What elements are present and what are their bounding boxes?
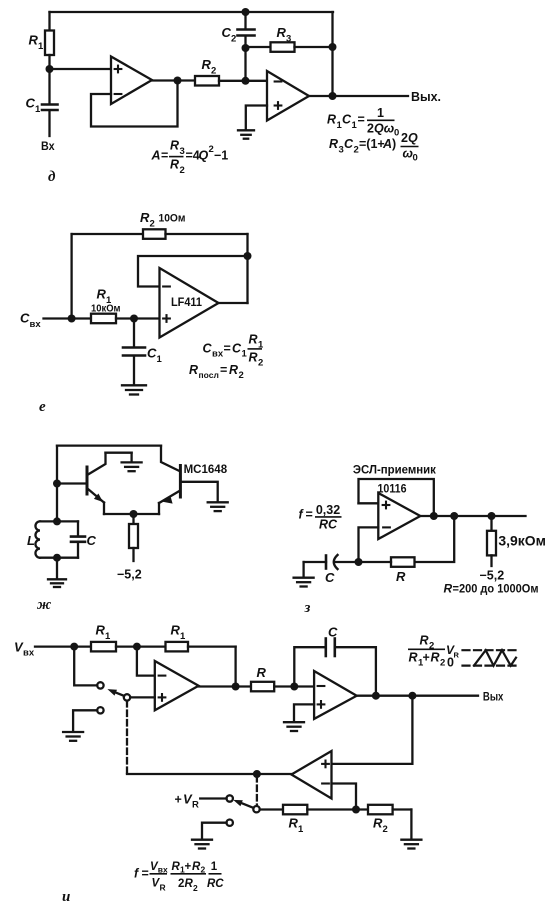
ground U2 + input xyxy=(238,130,254,138)
svg-text:−5,2: −5,2 xyxy=(480,569,505,583)
opamp U6 minus xyxy=(317,685,326,687)
svg-text:R: R xyxy=(202,57,212,72)
wire inverting input U4 to RC node xyxy=(359,527,379,562)
node U5 output junction xyxy=(232,683,240,691)
svg-text:=: = xyxy=(220,363,227,377)
dashed control line upper switch xyxy=(126,701,128,774)
svg-text:R: R xyxy=(289,816,299,831)
waveform triangle wave xyxy=(474,650,516,665)
ground switch lower xyxy=(192,840,212,849)
resistor emitter current source xyxy=(129,514,138,561)
wire comparator + input branch xyxy=(332,696,413,764)
svg-text:A: A xyxy=(151,149,161,163)
transistor Q2 collector xyxy=(161,446,179,471)
wire top bus circuit zh xyxy=(57,444,161,446)
wire tank bottom bar xyxy=(40,557,78,559)
wire U5 inverting input branch xyxy=(137,647,155,676)
resistor R2 10Om xyxy=(72,229,248,239)
svg-text:Вых: Вых xyxy=(483,690,504,704)
svg-text:2: 2 xyxy=(258,358,263,369)
node output 3.9k branch xyxy=(488,512,496,520)
svg-text:−5,2: −5,2 xyxy=(117,568,142,582)
svg-text:2: 2 xyxy=(401,131,408,145)
wire throw to ground xyxy=(73,710,97,731)
svg-text:R: R xyxy=(171,623,181,638)
svg-text:=: = xyxy=(161,149,168,163)
node between R1 resistors xyxy=(133,643,141,651)
svg-text:R: R xyxy=(409,651,418,665)
resistor R1 divider xyxy=(283,805,368,815)
svg-text:вх: вх xyxy=(212,349,224,360)
resistor R timing xyxy=(359,557,415,567)
svg-text:2: 2 xyxy=(354,145,359,156)
svg-text:R: R xyxy=(249,333,258,347)
capacitor C1 shunt xyxy=(123,319,145,385)
svg-text:3: 3 xyxy=(286,34,291,45)
resistor R3 xyxy=(246,42,333,52)
wire pole to R1 divider xyxy=(260,808,283,810)
svg-text:C: C xyxy=(328,625,338,640)
svg-text:1: 1 xyxy=(105,631,111,642)
wire R branch vertical xyxy=(415,516,455,562)
capacitor C2 xyxy=(238,12,255,48)
opamp U2 minus xyxy=(274,80,283,82)
svg-text:2: 2 xyxy=(231,34,236,45)
wire node X up to C2 xyxy=(244,48,246,81)
svg-text:3,9кОм: 3,9кОм xyxy=(498,534,546,549)
wire U2 output to Vyh xyxy=(309,95,408,97)
wire common emitter line xyxy=(104,513,159,515)
svg-text:RC: RC xyxy=(207,878,224,890)
ground below tank xyxy=(48,558,66,587)
svg-text:R: R xyxy=(170,158,179,172)
svg-text:R: R xyxy=(329,137,338,151)
wire U3 output xyxy=(219,302,248,304)
wire tank top bar xyxy=(40,520,78,522)
wire down to U5 output xyxy=(234,647,236,687)
svg-text:C: C xyxy=(232,342,242,356)
svg-text:R: R xyxy=(431,651,440,665)
svg-text:2: 2 xyxy=(383,824,388,835)
waveform dashed level 0 xyxy=(463,664,520,666)
svg-text:Вых.: Вых. xyxy=(411,90,441,104)
wire node to op-amp U1 + input xyxy=(50,68,112,70)
inductor L xyxy=(35,521,40,557)
svg-text:2: 2 xyxy=(209,144,214,155)
switch throw circle to ground xyxy=(97,707,103,713)
svg-text:10Ом: 10Ом xyxy=(159,213,186,225)
svg-text:R: R xyxy=(96,623,106,638)
svg-text:10116: 10116 xyxy=(378,484,407,496)
svg-text:1: 1 xyxy=(180,631,186,642)
svg-text:0: 0 xyxy=(447,656,454,670)
switch throw circle to ground lower xyxy=(227,820,233,826)
svg-text:R: R xyxy=(29,33,39,48)
switch throw circle to Vvx xyxy=(97,682,103,688)
opamp U6 plus xyxy=(317,700,326,709)
svg-text:посл: посл xyxy=(199,370,219,380)
transistor Q1 base bar xyxy=(86,467,89,494)
wire R2 right vertical down xyxy=(246,234,248,256)
capacitor C timing xyxy=(304,555,359,569)
resistor R2 xyxy=(195,76,246,86)
node feedback box right junction xyxy=(430,512,438,520)
op-amp U4 10116 xyxy=(378,493,420,539)
ground left circuit z xyxy=(294,562,314,587)
wire U6 output Vyh line xyxy=(357,695,478,697)
svg-text:2: 2 xyxy=(239,370,244,381)
dashed control line lower switch xyxy=(256,776,258,806)
svg-text:1: 1 xyxy=(377,106,384,120)
opamp U5 plus xyxy=(158,693,167,702)
node R1/C1 junction xyxy=(130,315,138,323)
transistor Q2 base bar xyxy=(179,466,182,498)
svg-text:R: R xyxy=(170,139,179,153)
svg-text:): ) xyxy=(392,137,396,151)
node summing junction U6 xyxy=(290,683,298,691)
svg-text:вх: вх xyxy=(23,648,35,659)
svg-text:2: 2 xyxy=(193,883,198,893)
wire node X to U2 inverting input xyxy=(246,80,268,82)
transistor Q1 collector xyxy=(88,453,106,475)
node input/R2 branch junction xyxy=(68,315,76,323)
switch lever lower with arrow xyxy=(233,800,253,808)
resistor R2 divider xyxy=(368,805,411,815)
opamp U5 minus xyxy=(158,675,167,677)
ground switch upper xyxy=(63,732,83,741)
svg-text:−1: −1 xyxy=(214,149,228,163)
wire U6 + input to ground xyxy=(294,704,314,720)
svg-text:R: R xyxy=(327,113,336,127)
wire U4 output line xyxy=(420,515,525,517)
svg-text:е: е xyxy=(39,399,46,415)
wire Vvx input line circuit i xyxy=(35,645,91,647)
node U1 output junction xyxy=(174,77,182,85)
wire feedback to inverting input of U3 xyxy=(138,256,248,287)
svg-text:Q: Q xyxy=(199,149,209,163)
svg-text:Qω: Qω xyxy=(374,122,395,136)
svg-text:2: 2 xyxy=(180,165,185,176)
svg-text:1: 1 xyxy=(157,354,163,365)
op-amp U1 xyxy=(111,57,152,105)
svg-text:RC: RC xyxy=(319,518,338,532)
wire U5 output to R xyxy=(199,685,251,687)
wire feedback vertical to output xyxy=(246,256,248,303)
wire throw to input node xyxy=(74,647,97,686)
svg-text:1: 1 xyxy=(211,861,218,873)
svg-text:R: R xyxy=(396,569,406,584)
transistor Q2 emitter with arrow xyxy=(159,491,179,514)
wire feedback box ECL receiver circuit z xyxy=(359,479,434,516)
wire comparator output control line xyxy=(127,773,291,775)
waveform fraction R2 over R1 plus R2 xyxy=(408,634,445,669)
svg-text:C: C xyxy=(344,137,354,151)
opamp U3 minus xyxy=(162,285,171,287)
wire U5 + input to switch pole xyxy=(130,696,155,698)
opamp U2 plus xyxy=(274,101,283,110)
wire left vertical bus xyxy=(56,446,58,522)
svg-text:1: 1 xyxy=(35,104,41,115)
svg-text:0,32: 0,32 xyxy=(316,503,340,517)
svg-text:=: = xyxy=(142,867,149,881)
svg-text:Q: Q xyxy=(408,131,418,145)
node base junction left xyxy=(53,480,61,488)
op-amp U6 integrator xyxy=(314,671,357,719)
svg-text:R: R xyxy=(373,816,383,831)
svg-text:R: R xyxy=(189,363,198,377)
svg-text:=: = xyxy=(224,342,231,356)
svg-text:з: з xyxy=(304,600,311,616)
node R branch junction xyxy=(450,512,458,520)
equation f converter xyxy=(134,861,224,893)
ground below C1 xyxy=(122,385,146,394)
wire U2 + input to ground xyxy=(246,106,267,130)
label R range xyxy=(444,582,539,596)
svg-text:и: и xyxy=(62,889,70,905)
resistor R1 second xyxy=(166,642,236,652)
svg-text:=200 до 1000Ом: =200 до 1000Ом xyxy=(453,582,539,596)
node C feedback junction xyxy=(372,692,380,700)
svg-text:R: R xyxy=(444,582,453,596)
svg-text:+: + xyxy=(185,861,192,873)
wire R2 branch left vertical xyxy=(70,234,72,319)
svg-text:вх: вх xyxy=(30,319,42,330)
svg-text:0: 0 xyxy=(413,153,418,164)
wire top feedback bus circuit d xyxy=(50,11,334,13)
svg-text:1: 1 xyxy=(242,349,248,360)
svg-text:+: + xyxy=(423,651,430,665)
svg-text:C: C xyxy=(222,25,232,40)
svg-text:A: A xyxy=(382,137,392,151)
svg-text:=: = xyxy=(358,113,365,127)
svg-text:д: д xyxy=(48,169,56,185)
svg-text:C: C xyxy=(26,96,36,111)
node R1/R2 divider junction xyxy=(352,806,360,814)
switch lever upper with arrow xyxy=(107,689,124,696)
wire input Cvx line circuit e xyxy=(44,317,92,319)
switch pole circle lower xyxy=(253,806,259,812)
svg-text:C: C xyxy=(20,311,30,326)
opamp U1 minus xyxy=(114,93,123,95)
svg-text:C: C xyxy=(203,342,213,356)
opamp U1 plus xyxy=(114,65,123,74)
svg-text:R: R xyxy=(420,634,429,648)
svg-text:Вх: Вх xyxy=(41,141,55,153)
resistor R1 xyxy=(45,12,54,69)
equation Rposl xyxy=(189,363,244,381)
svg-text:1: 1 xyxy=(38,41,44,52)
svg-text:10кОм: 10кОм xyxy=(91,303,121,315)
op-amp U3 LF411 xyxy=(160,268,219,338)
wire base of Q2 to ground xyxy=(180,482,217,502)
ground R2 xyxy=(401,840,421,849)
comparator U7 minus xyxy=(321,782,330,784)
equation Cvx xyxy=(203,333,265,369)
svg-text:2: 2 xyxy=(211,66,216,77)
resistor R integrator xyxy=(251,682,314,692)
svg-text:C: C xyxy=(342,113,352,127)
resistor R1 first xyxy=(91,642,166,652)
node emitter junction xyxy=(130,510,138,518)
resistor 3.9kOm pulldown xyxy=(487,516,496,566)
opamp U4 plus xyxy=(382,501,391,510)
equation R3C2 xyxy=(329,131,419,164)
svg-text:R: R xyxy=(257,665,267,680)
equation f timing xyxy=(299,503,342,532)
switch throw circle to +VR xyxy=(227,795,233,801)
comparator U7 plus xyxy=(321,760,330,769)
svg-text:C: C xyxy=(325,570,335,585)
svg-text:=(1+: =(1+ xyxy=(359,137,385,151)
opamp U4 minus xyxy=(382,526,391,528)
svg-text:ЭСЛ-приемник: ЭСЛ-приемник xyxy=(353,463,437,477)
svg-text:R: R xyxy=(140,210,150,225)
svg-text:R: R xyxy=(229,363,238,377)
svg-text:2: 2 xyxy=(367,122,374,136)
svg-text:=: = xyxy=(306,508,313,522)
svg-text:3: 3 xyxy=(339,145,344,156)
transistor Q1 emitter with arrow xyxy=(88,489,104,514)
svg-text:3: 3 xyxy=(180,146,185,157)
svg-text:MC1648: MC1648 xyxy=(184,462,228,476)
capacitor C tank xyxy=(71,521,85,557)
node C2 top on feedback bus xyxy=(242,8,250,16)
wire collector Q1 to ground xyxy=(106,452,132,454)
svg-text:C: C xyxy=(87,533,97,548)
svg-text:LF411: LF411 xyxy=(171,297,203,309)
node output junction xyxy=(329,92,337,100)
node tank top junction xyxy=(53,517,61,525)
node junction R1/C1/opamp input xyxy=(46,65,54,73)
waveform dashed level VR xyxy=(463,649,518,651)
node control line junction xyxy=(253,770,261,778)
svg-text:R: R xyxy=(277,25,287,40)
wire R2 to ground xyxy=(410,810,412,840)
node input junction xyxy=(70,643,78,651)
resistor R1 10kOm xyxy=(91,314,160,324)
wire base of Q1 xyxy=(57,482,86,484)
wire comparator inverting input xyxy=(332,784,357,810)
node C/R/inverting input junction xyxy=(355,558,363,566)
node comparator branch junction xyxy=(408,692,416,700)
op-amp U2 xyxy=(267,71,309,121)
node R3 right junction xyxy=(329,43,337,51)
comparator U7 xyxy=(291,751,331,799)
wire U1 feedback loop output to inverting input xyxy=(91,81,178,127)
capacitor C1 xyxy=(42,69,58,136)
svg-text:R: R xyxy=(249,351,258,365)
svg-text:ж: ж xyxy=(37,597,51,613)
equation A equals R3 over R2 xyxy=(151,139,229,177)
svg-text:C: C xyxy=(147,346,157,361)
wire +VR to throw xyxy=(200,797,226,799)
wire U1 output xyxy=(152,79,195,81)
ground U6 xyxy=(284,722,304,731)
switch pole circle upper xyxy=(124,694,130,700)
node X junction R2/C2/R3/U2 input xyxy=(242,77,250,85)
svg-text:2: 2 xyxy=(150,219,155,230)
equation R1C1 xyxy=(327,106,399,139)
svg-text:R: R xyxy=(97,287,107,302)
svg-text:+: + xyxy=(175,793,182,807)
svg-text:R: R xyxy=(454,651,460,660)
wire throw to ground lower xyxy=(202,823,227,839)
wire right vertical from top bus to output node xyxy=(331,12,333,96)
node tank bottom junction xyxy=(53,554,61,562)
wire + input U4 xyxy=(359,502,379,504)
svg-text:1: 1 xyxy=(298,824,304,835)
node R2/feedback junction xyxy=(244,252,252,260)
svg-text:2: 2 xyxy=(178,878,184,890)
svg-text:R: R xyxy=(192,800,199,811)
opamp U3 plus xyxy=(162,314,171,323)
svg-text:L: L xyxy=(27,533,35,548)
ground base Q2 xyxy=(208,502,228,511)
node C2/R3 junction xyxy=(242,44,250,52)
op-amp U5 xyxy=(155,661,199,710)
ground collector Q1 xyxy=(122,453,142,472)
capacitor C integrator feedback xyxy=(294,639,376,696)
svg-text:R: R xyxy=(160,883,166,893)
svg-text:2: 2 xyxy=(440,658,445,669)
